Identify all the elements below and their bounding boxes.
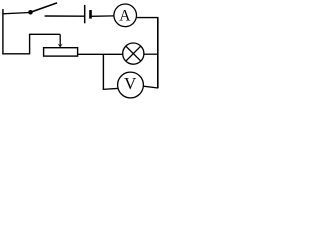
node: T junction to voltmeter branch — [102, 54, 104, 89]
lamp L circle — [123, 43, 144, 64]
ammeter U1 circle — [114, 4, 137, 27]
wire: ammeter to top-right corner — [137, 17, 159, 19]
rheostat R slider arrow shaft — [59, 34, 61, 45]
battery positive plate (long) — [84, 5, 86, 23]
switch S pivot dot — [28, 10, 33, 15]
wire: battery to ammeter — [92, 15, 115, 17]
lamp L cross diagonal 1 — [126, 46, 141, 61]
battery negative plate (short thick) — [89, 10, 92, 19]
lamp L cross diagonal 2 — [126, 46, 141, 61]
voltmeter U2 circle — [118, 72, 144, 98]
svg-text:V: V — [124, 74, 136, 93]
wire: lamp to right vertical — [144, 53, 158, 55]
wire: riser up to slider rail — [29, 34, 31, 54]
wire: bottom-left horizontal — [2, 53, 29, 55]
wire: bottom corner to voltmeter — [103, 88, 120, 89]
svg-text:A: A — [119, 8, 131, 25]
wire: rheostat to lamp — [78, 53, 124, 55]
wire: right vertical — [157, 18, 159, 89]
rheostat R slider arrowhead — [58, 44, 63, 48]
rheostat R body box — [44, 48, 78, 56]
wire: switch fixed contact to battery — [45, 15, 85, 17]
wire: top-left horizontal to switch — [2, 13, 30, 14]
wire: left vertical — [2, 9, 4, 54]
wire: voltmeter to right vertical — [143, 86, 158, 88]
switch S blade — [31, 3, 58, 12]
wire: slider rail horizontal — [29, 33, 60, 35]
